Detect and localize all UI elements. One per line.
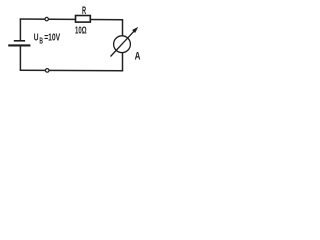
svg-text:10Ω: 10Ω	[75, 25, 87, 36]
svg-text:R: R	[82, 5, 86, 17]
svg-text:A: A	[135, 50, 141, 62]
svg-text:B: B	[39, 35, 43, 45]
svg-text:U: U	[34, 33, 39, 44]
svg-text:=10V: =10V	[44, 32, 60, 43]
